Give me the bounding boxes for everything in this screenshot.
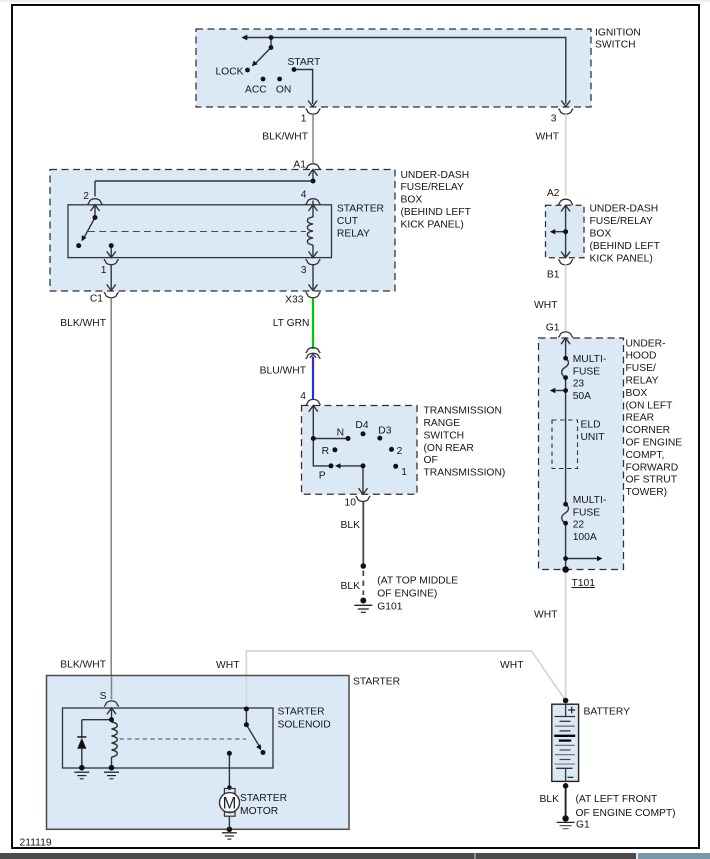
svg-text:WHT: WHT bbox=[534, 300, 558, 311]
svg-text:TRANSMISSION: TRANSMISSION bbox=[424, 406, 502, 417]
svg-text:BLK: BLK bbox=[341, 581, 361, 592]
svg-text:G101: G101 bbox=[377, 602, 402, 613]
svg-text:WHT: WHT bbox=[500, 660, 524, 671]
svg-text:MOTOR: MOTOR bbox=[240, 806, 278, 817]
svg-text:D3: D3 bbox=[378, 426, 391, 437]
svg-text:211119: 211119 bbox=[20, 838, 52, 849]
svg-text:(BEHIND LEFT: (BEHIND LEFT bbox=[401, 207, 472, 218]
svg-text:M: M bbox=[223, 794, 237, 812]
svg-text:FUSE: FUSE bbox=[573, 507, 601, 518]
svg-text:STARTER: STARTER bbox=[278, 707, 325, 718]
svg-text:FORWARD: FORWARD bbox=[626, 462, 679, 473]
svg-text:KICK PANEL): KICK PANEL) bbox=[590, 253, 653, 264]
svg-text:WHT: WHT bbox=[216, 660, 240, 671]
svg-text:KICK PANEL): KICK PANEL) bbox=[401, 219, 464, 230]
svg-text:BOX: BOX bbox=[626, 388, 648, 399]
svg-text:OF ENGINE: OF ENGINE bbox=[626, 438, 683, 449]
svg-text:ACC: ACC bbox=[245, 85, 267, 96]
svg-text:OF: OF bbox=[424, 455, 438, 466]
svg-text:COMPT,: COMPT, bbox=[626, 450, 665, 461]
svg-text:N: N bbox=[337, 428, 344, 439]
svg-text:FUSE/RELAY: FUSE/RELAY bbox=[401, 182, 464, 193]
svg-text:T101: T101 bbox=[572, 578, 596, 589]
svg-text:OF ENGINE): OF ENGINE) bbox=[377, 589, 437, 600]
svg-text:UNIT: UNIT bbox=[581, 432, 606, 443]
svg-text:BLK/WHT: BLK/WHT bbox=[262, 132, 308, 143]
svg-text:P: P bbox=[319, 471, 326, 482]
svg-text:(AT TOP MIDDLE: (AT TOP MIDDLE bbox=[377, 576, 458, 587]
svg-text:D4: D4 bbox=[355, 420, 368, 431]
svg-text:A2: A2 bbox=[547, 188, 560, 199]
svg-text:RANGE: RANGE bbox=[424, 418, 461, 429]
svg-text:A1: A1 bbox=[293, 160, 306, 171]
svg-text:(AT LEFT FRONT: (AT LEFT FRONT bbox=[576, 794, 659, 805]
svg-text:S: S bbox=[100, 691, 107, 702]
svg-text:UNDER-DASH: UNDER-DASH bbox=[590, 204, 659, 215]
svg-text:2: 2 bbox=[397, 446, 403, 457]
svg-text:G1: G1 bbox=[546, 323, 560, 334]
svg-text:CUT: CUT bbox=[337, 216, 359, 227]
svg-text:SOLENOID: SOLENOID bbox=[278, 720, 331, 731]
svg-text:FUSE: FUSE bbox=[573, 366, 601, 377]
svg-text:BLU/WHT: BLU/WHT bbox=[260, 366, 307, 377]
svg-text:MULTI-: MULTI- bbox=[573, 495, 607, 506]
svg-text:TRANSMISSION): TRANSMISSION) bbox=[424, 468, 506, 479]
svg-text:WHT: WHT bbox=[536, 132, 560, 143]
svg-text:3: 3 bbox=[551, 114, 557, 125]
svg-text:ON: ON bbox=[276, 85, 291, 96]
svg-text:RELAY: RELAY bbox=[626, 376, 659, 387]
svg-text:4: 4 bbox=[300, 391, 306, 402]
svg-text:BOX: BOX bbox=[401, 195, 423, 206]
svg-text:TOWER): TOWER) bbox=[626, 487, 668, 498]
svg-text:UNDER-DASH: UNDER-DASH bbox=[401, 170, 470, 181]
svg-text:OF ENGINE COMPT): OF ENGINE COMPT) bbox=[576, 808, 676, 819]
svg-text:1: 1 bbox=[301, 114, 307, 125]
svg-text:B1: B1 bbox=[547, 270, 560, 281]
svg-text:LT GRN: LT GRN bbox=[273, 318, 310, 329]
svg-text:50A: 50A bbox=[573, 391, 591, 402]
svg-text:3: 3 bbox=[301, 265, 307, 276]
svg-text:STARTER: STARTER bbox=[353, 676, 400, 687]
svg-text:2: 2 bbox=[83, 191, 89, 202]
svg-text:STARTER: STARTER bbox=[240, 793, 287, 804]
svg-text:CORNER: CORNER bbox=[626, 425, 671, 436]
svg-text:FUSE/RELAY: FUSE/RELAY bbox=[590, 216, 653, 227]
svg-text:START: START bbox=[288, 57, 322, 68]
svg-text:100A: 100A bbox=[573, 532, 597, 543]
svg-text:SWITCH: SWITCH bbox=[424, 430, 465, 441]
svg-text:BATTERY: BATTERY bbox=[584, 706, 631, 717]
svg-text:ELD: ELD bbox=[581, 420, 601, 431]
svg-text:BLK: BLK bbox=[341, 520, 361, 531]
svg-text:23: 23 bbox=[573, 379, 585, 390]
svg-text:1: 1 bbox=[101, 265, 107, 276]
svg-text:BLK/WHT: BLK/WHT bbox=[60, 660, 106, 671]
svg-text:BLK: BLK bbox=[540, 794, 560, 805]
svg-text:RELAY: RELAY bbox=[337, 228, 370, 239]
svg-text:G1: G1 bbox=[576, 820, 590, 831]
svg-text:(BEHIND LEFT: (BEHIND LEFT bbox=[590, 241, 661, 252]
svg-text:X33: X33 bbox=[285, 295, 304, 306]
svg-text:OF STRUT: OF STRUT bbox=[626, 475, 678, 486]
svg-text:WHT: WHT bbox=[534, 610, 558, 621]
svg-text:1: 1 bbox=[401, 467, 407, 478]
svg-text:FUSE/: FUSE/ bbox=[626, 363, 656, 374]
svg-text:BOX: BOX bbox=[590, 229, 612, 240]
svg-text:(ON REAR: (ON REAR bbox=[424, 443, 474, 454]
svg-text:REAR: REAR bbox=[626, 413, 655, 424]
svg-text:(ON LEFT: (ON LEFT bbox=[626, 400, 674, 411]
svg-text:LOCK: LOCK bbox=[215, 67, 243, 78]
svg-text:BLK/WHT: BLK/WHT bbox=[60, 318, 106, 329]
svg-text:10: 10 bbox=[345, 498, 357, 509]
svg-text:22: 22 bbox=[573, 520, 585, 531]
svg-text:R: R bbox=[322, 446, 329, 457]
svg-text:HOOD: HOOD bbox=[626, 351, 657, 362]
svg-text:UNDER-: UNDER- bbox=[626, 338, 666, 349]
svg-text:4: 4 bbox=[301, 190, 307, 201]
svg-text:IGNITION: IGNITION bbox=[595, 27, 641, 38]
svg-text:SWITCH: SWITCH bbox=[595, 40, 636, 51]
svg-text:MULTI-: MULTI- bbox=[573, 354, 607, 365]
svg-text:STARTER: STARTER bbox=[337, 204, 384, 215]
svg-text:C1: C1 bbox=[90, 294, 103, 305]
